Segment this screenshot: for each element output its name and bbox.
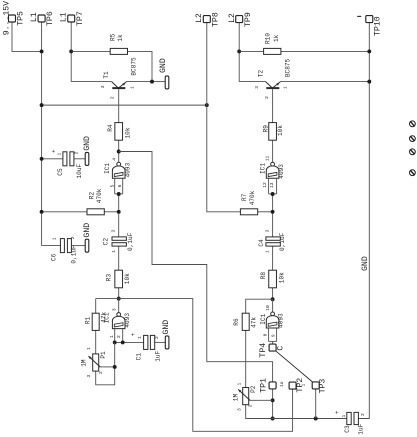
wire P2 bottom to mid rail	[246, 405, 347, 419]
junction TP1 wire/mid rail	[271, 417, 275, 421]
svg-text:P2: P2	[250, 385, 257, 393]
svg-text:1o: 1o	[279, 381, 285, 387]
svg-text:IC1: IC1	[260, 313, 267, 324]
wire TP9 down	[238, 23, 240, 82]
wire T2 collector to R9	[272, 89, 274, 123]
svg-text:2: 2	[110, 96, 116, 99]
wire node B to gate D bubble	[272, 299, 274, 312]
svg-text:GND: GND	[159, 58, 168, 73]
junction GND/T2 emitter	[367, 80, 371, 84]
wire node A to gate C output bubble	[118, 299, 120, 313]
resistor R8 10k	[269, 270, 277, 288]
svg-text:BC875: BC875	[285, 58, 292, 77]
svg-text:R8: R8	[260, 272, 267, 280]
wire T1 emitter to node	[126, 81, 152, 83]
svg-text:2: 2	[73, 151, 79, 154]
svg-text:R5: R5	[110, 33, 117, 41]
svg-text:1M: 1M	[232, 394, 239, 402]
svg-text:470k: 470k	[96, 188, 103, 203]
svg-text:2: 2	[111, 229, 117, 232]
svg-text:C3: C3	[344, 425, 351, 433]
svg-text:3: 3	[254, 86, 260, 89]
svg-text:3: 3	[236, 408, 242, 411]
junction gate A output node	[117, 150, 121, 154]
test point TP8	[203, 16, 210, 23]
wire T1 collector to R4	[118, 89, 120, 123]
svg-text:R3: R3	[106, 274, 113, 282]
svg-text:C2: C2	[102, 238, 109, 246]
wire TP9 to T2 base	[239, 81, 265, 83]
svg-text:2: 2	[265, 229, 271, 232]
potentiometer P1 1M	[93, 354, 99, 371]
svg-text:IC1: IC1	[104, 163, 111, 174]
svg-text:6: 6	[117, 184, 123, 187]
svg-text:10uF: 10uF	[76, 164, 83, 179]
wire TP5 to L1 rail	[12, 22, 42, 51]
svg-text:L1: L1	[59, 12, 68, 22]
svg-text:T1: T1	[103, 71, 110, 79]
wire bus L1 to TP8 column	[42, 104, 207, 106]
svg-text:1: 1	[341, 415, 347, 418]
wire feedback gate A output to TP1	[119, 152, 273, 382]
junction node B (R8/R6/gate D)	[271, 297, 275, 301]
wire TP9 to R10	[239, 50, 263, 52]
test point TP4	[269, 344, 276, 351]
resistor R4 10k	[115, 123, 123, 141]
wire R1 top	[95, 299, 97, 314]
junction TP9/R10	[237, 49, 241, 53]
svg-text:9: 9	[270, 334, 276, 337]
svg-text:10k: 10k	[277, 125, 284, 136]
junction TP1 wire/P2 wiper	[271, 398, 275, 402]
svg-text:2: 2	[154, 336, 160, 339]
svg-text:4093: 4093	[278, 164, 285, 179]
svg-text:13: 13	[269, 182, 275, 188]
svg-text:C1: C1	[136, 353, 143, 361]
wire node A to R1	[96, 298, 119, 300]
svg-text:+: +	[130, 332, 137, 336]
resistor R6 47k	[242, 313, 249, 330]
junction bus/TP8	[205, 103, 209, 107]
svg-text:47k: 47k	[101, 311, 108, 322]
wire gate C inputs to C1	[115, 341, 144, 343]
op gate IC1C 4093 (pins 8,9 -> 10)	[271, 312, 275, 316]
mounting hole 3	[410, 149, 416, 155]
mounting hole 1	[410, 121, 416, 127]
svg-text:4093: 4093	[124, 162, 131, 177]
svg-text:10k: 10k	[124, 127, 131, 138]
svg-text:10k: 10k	[124, 273, 131, 284]
wire R9 to gate B output	[272, 140, 274, 162]
svg-text:BC875: BC875	[131, 57, 138, 76]
svg-text:2: 2	[116, 335, 122, 338]
svg-text:L2: L2	[228, 13, 237, 23]
resistor R10 1k	[264, 48, 281, 54]
wire C5 to GND bar	[74, 158, 85, 160]
wire R10 to GND rail	[281, 50, 369, 52]
svg-text:C6: C6	[51, 253, 58, 261]
svg-text:TP8: TP8	[211, 12, 220, 27]
svg-text:C: C	[276, 346, 285, 351]
svg-text:R9: R9	[263, 125, 270, 133]
svg-text:2: 2	[98, 371, 104, 374]
svg-text:11: 11	[264, 155, 270, 161]
svg-text:1M: 1M	[81, 359, 88, 367]
wire R8 to node B	[272, 288, 274, 299]
wire R2 to node	[104, 211, 118, 213]
wire L1 rail vertical (TP6 down)	[41, 22, 43, 246]
wire P1 wiper	[99, 366, 114, 368]
test point TP1	[269, 382, 276, 389]
wire TP8 down to R7	[207, 23, 241, 212]
svg-text:TP5: TP5	[17, 11, 26, 26]
svg-text:L2: L2	[195, 13, 204, 23]
svg-text:3: 3	[100, 85, 106, 88]
wire GND rail (TP10 down)	[358, 23, 369, 419]
junction L1/bus	[40, 103, 44, 107]
wire C1 to GND bar	[155, 341, 166, 343]
test point TP10	[366, 16, 373, 23]
svg-text:9...15V: 9...15V	[3, 1, 12, 35]
svg-text:2: 2	[360, 413, 366, 416]
junction L1/TP5	[40, 49, 44, 53]
svg-text:2: 2	[264, 96, 270, 99]
junction TP7/R5	[69, 49, 73, 53]
junction GND/R10	[367, 49, 371, 53]
svg-text:1: 1	[282, 86, 288, 89]
resistor R9 10k	[269, 123, 277, 141]
svg-text:1uF: 1uF	[357, 423, 364, 434]
test point TP9	[236, 16, 243, 23]
junction L1/C5	[40, 157, 44, 161]
wire TP7 to T1 base	[71, 81, 111, 83]
wire L1 to R2	[42, 211, 87, 213]
svg-text:T2: T2	[258, 69, 265, 77]
svg-text:GND: GND	[83, 223, 92, 238]
test point TP2	[289, 382, 296, 389]
svg-text:1: 1	[109, 335, 115, 338]
junction node A (R3/R1/gate C out)	[117, 297, 121, 301]
svg-text:TP10: TP10	[373, 16, 382, 36]
svg-text:L1: L1	[30, 12, 39, 22]
svg-text:1k: 1k	[273, 34, 280, 42]
ground bar at C6	[85, 239, 89, 252]
svg-text:TP9: TP9	[244, 12, 253, 27]
svg-text:TP1: TP1	[259, 378, 268, 393]
resistor R3 10k	[115, 270, 123, 288]
svg-text:8: 8	[262, 333, 268, 336]
resistor R2 470k	[87, 209, 104, 215]
test point TP6	[38, 15, 45, 22]
svg-text:3: 3	[112, 308, 118, 311]
mounting hole 4	[410, 170, 416, 176]
svg-text:1: 1	[137, 336, 143, 339]
wire node B to R6	[246, 299, 273, 313]
wire R3 to node A	[118, 288, 120, 299]
svg-text:4093: 4093	[278, 313, 285, 328]
ground bar at T1 emitter	[165, 76, 169, 89]
transistor T2 BC875	[266, 82, 273, 89]
svg-text:R1: R1	[84, 316, 91, 324]
svg-text:3: 3	[86, 375, 92, 378]
junction R7/gate B input	[271, 210, 275, 214]
wire TP1 down to rail	[272, 389, 274, 418]
svg-text:IC1: IC1	[259, 163, 266, 174]
wire P2 wiper to TP1 wire	[249, 399, 273, 401]
test point TP3	[312, 382, 319, 389]
svg-text:4: 4	[111, 158, 117, 161]
wire R4 to gate A output	[118, 140, 120, 162]
wire R7 to node	[258, 211, 273, 213]
resistor R7 470k	[240, 209, 257, 215]
ground bar at C1	[165, 336, 169, 349]
svg-text:R6: R6	[233, 318, 240, 326]
wire C1 net down to P1 bottom	[96, 342, 115, 384]
svg-text:1: 1	[51, 237, 57, 240]
junction L1/R2	[40, 210, 44, 214]
svg-text:TP7: TP7	[76, 11, 85, 26]
svg-text:1uF: 1uF	[155, 350, 162, 361]
capacitor C2 0,1uF	[112, 237, 126, 240]
svg-text:1: 1	[129, 86, 135, 89]
wire gate C input pin 2 down	[122, 329, 124, 343]
wire TP3 down	[315, 389, 317, 418]
wire L1 to C5	[42, 158, 63, 160]
wire node A to TP2 (lower rail)	[119, 299, 293, 432]
ground bar at C5	[85, 152, 89, 165]
svg-text:5: 5	[110, 184, 116, 187]
wire C2 to R3	[118, 246, 120, 270]
wire diagonal TP4 to TP3	[276, 351, 312, 382]
svg-text:4093: 4093	[124, 313, 131, 328]
junction TP3/mid rail	[314, 417, 318, 421]
svg-text:0,1uF: 0,1uF	[279, 232, 286, 251]
op gate IC1B 4093 (pins 1,2 -> 3)	[117, 313, 121, 317]
svg-text:1: 1	[56, 153, 62, 156]
svg-text:R4: R4	[107, 124, 114, 132]
mounting hole 2	[410, 136, 416, 142]
op gate IC1D 4093 (pins 12,13 -> 11)	[271, 162, 275, 166]
svg-text:2: 2	[70, 236, 76, 239]
svg-text:R7: R7	[241, 193, 248, 201]
svg-text:12: 12	[262, 182, 268, 188]
wire TP7 down	[70, 22, 72, 82]
svg-text:2: 2	[247, 404, 253, 407]
wire T2 emitter to GND rail	[280, 81, 369, 83]
wire C4 to R8	[272, 246, 274, 270]
wire gate B inputs to R7 node and C4	[272, 194, 274, 237]
svg-text:TP3: TP3	[319, 379, 328, 394]
transistor T1 BC875	[112, 82, 119, 89]
svg-text:C4: C4	[258, 239, 265, 247]
junction R2/gate A input	[117, 210, 121, 214]
resistor R5 1k	[110, 48, 127, 54]
svg-text:470k: 470k	[249, 190, 256, 205]
wire R5 to T1 emitter node	[128, 51, 153, 81]
svg-text:R10: R10	[264, 33, 271, 44]
wire gate A inputs to R2 node and C2	[118, 194, 120, 237]
label minus (TP10)	[357, 15, 361, 17]
svg-text:0,1uF: 0,1uF	[71, 245, 78, 264]
svg-text:+: +	[334, 410, 341, 414]
svg-text:TP6: TP6	[46, 11, 55, 26]
capacitor C3 1uF	[347, 412, 359, 424]
svg-text:0,1uF: 0,1uF	[127, 232, 134, 251]
svg-text:1: 1	[86, 347, 92, 350]
wire C6 to GND bar	[71, 245, 85, 247]
svg-text:GND: GND	[83, 136, 92, 151]
svg-text:R2: R2	[89, 192, 96, 200]
capacitor C5 10uF	[63, 152, 67, 166]
svg-text:1: 1	[236, 383, 242, 386]
test point TP5	[9, 15, 16, 22]
svg-text:1: 1	[111, 250, 117, 253]
wire R1 to P1	[95, 330, 97, 354]
wire L1 to C6	[42, 245, 61, 247]
svg-text:10k: 10k	[278, 272, 285, 283]
svg-text:10: 10	[265, 305, 271, 311]
wire TP7 to R5	[71, 50, 110, 52]
potentiometer P2 1M	[243, 388, 249, 405]
svg-text:47k: 47k	[251, 317, 258, 328]
svg-text:GND: GND	[162, 320, 171, 335]
svg-text:P1: P1	[100, 351, 107, 359]
junction gate C pin2/C1 wire	[121, 340, 125, 344]
junction P1 wiper/C1 net	[113, 365, 117, 369]
capacitor C1 1uF	[144, 335, 155, 349]
test point TP7	[68, 15, 75, 22]
svg-text:GND: GND	[361, 256, 370, 271]
svg-text:C5: C5	[57, 168, 64, 176]
capacitor C6 0,1uF	[60, 239, 64, 253]
op gate IC1A 4093 (pins 5,6 -> 4)	[117, 162, 121, 166]
junction T1 emitter/GND	[150, 80, 154, 84]
svg-text:+: +	[51, 149, 58, 153]
wire R6 to P2	[245, 330, 247, 387]
svg-text:1: 1	[300, 384, 306, 387]
svg-text:TP4: TP4	[259, 343, 268, 358]
svg-text:1: 1	[265, 250, 271, 253]
capacitor C4 0,1uF	[266, 237, 280, 240]
resistor R1 47k	[92, 313, 99, 330]
wire node to GND bar	[152, 81, 165, 83]
junction gate C pin1/C1 wire	[113, 340, 117, 344]
svg-text:1k: 1k	[117, 34, 124, 42]
wire gate C input pin 1 down	[114, 329, 116, 343]
